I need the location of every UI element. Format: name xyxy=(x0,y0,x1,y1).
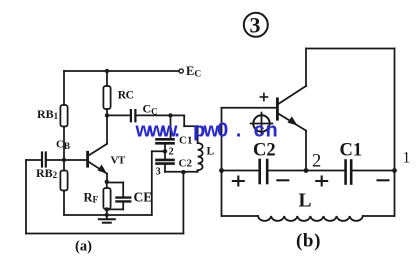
svg-text:C2: C2 xyxy=(253,141,276,161)
svg-text:(b): (b) xyxy=(296,231,321,252)
svg-text:CC: CC xyxy=(143,102,158,117)
svg-text:RC: RC xyxy=(118,89,134,101)
svg-text:(a): (a) xyxy=(75,239,92,255)
svg-text:RF: RF xyxy=(84,191,99,206)
svg-text:www.pw0.cn: www.pw0.cn xyxy=(135,120,279,142)
svg-text:C1: C1 xyxy=(340,141,363,161)
svg-text:RB2: RB2 xyxy=(36,166,58,180)
svg-text:1: 1 xyxy=(403,150,411,167)
svg-text:C2: C2 xyxy=(179,158,193,170)
svg-text:CE: CE xyxy=(134,190,153,205)
svg-text:VT: VT xyxy=(111,154,126,166)
svg-text:2: 2 xyxy=(312,152,321,172)
svg-text:C1: C1 xyxy=(179,135,192,147)
svg-text:EC: EC xyxy=(186,64,201,80)
svg-text:CB: CB xyxy=(56,139,70,152)
svg-text:L: L xyxy=(299,191,312,212)
svg-text:L: L xyxy=(207,146,215,158)
svg-text:3: 3 xyxy=(156,167,161,178)
svg-text:2: 2 xyxy=(169,147,174,158)
svg-text:RB1: RB1 xyxy=(37,107,59,121)
svg-text:3: 3 xyxy=(250,13,261,38)
